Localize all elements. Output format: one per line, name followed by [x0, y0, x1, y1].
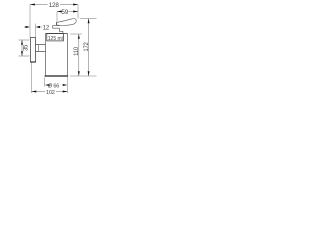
svg-text:Ø 66: Ø 66: [48, 84, 59, 90]
dimension 110 line: [78, 34, 80, 76]
svg-text:12: 12: [43, 26, 50, 32]
pump body steps: [53, 26, 63, 34]
dimension 59 arrows: [57, 11, 78, 13]
dimension 12 left arrow: [24, 26, 27, 28]
holder arm bottom: [36, 51, 46, 53]
dimension 102 arrows: [32, 91, 68, 93]
wall plate: [31, 38, 36, 63]
svg-text:35: 35: [24, 44, 30, 51]
bottle bottom thick: [45, 75, 69, 77]
dimension diameter arrows: [45, 84, 50, 86]
extension line plate front: [35, 24, 37, 38]
dimension 128 line: [30, 4, 78, 6]
dimension 128 arrows: [30, 4, 78, 6]
holder arm top: [36, 44, 46, 46]
extension line below bottle right: [67, 77, 69, 93]
dimension 172 top extension: [80, 18, 97, 20]
dimension 172 line: [88, 19, 90, 77]
wall plate bottom thick: [30, 61, 36, 63]
extension line below bottle left: [44, 78, 46, 87]
spout tip cap: [56, 22, 58, 25]
dimension 59 line: [57, 11, 78, 13]
extension line left of 128: [29, 5, 31, 38]
svg-text:125 ml: 125 ml: [48, 36, 63, 42]
dimension 172 bottom extension: [70, 75, 97, 77]
svg-text:59: 59: [61, 9, 68, 16]
svg-text:128: 128: [49, 2, 60, 9]
bottle body: [46, 33, 68, 35]
svg-text:172: 172: [84, 41, 90, 51]
extension line below plate: [31, 63, 33, 94]
dimension 12 right arrow: [40, 26, 43, 28]
label box 125 ml: [47, 34, 64, 41]
dimension 35 arrows: [21, 40, 23, 56]
svg-text:102: 102: [46, 90, 55, 96]
dimension 102 line: [32, 91, 68, 93]
dimension 35 ticks: [19, 40, 30, 56]
extension line spout tip: [56, 12, 58, 22]
dimension 172 arrows: [88, 19, 90, 77]
dimension 110 arrows: [78, 34, 80, 76]
pump lever: [57, 19, 77, 26]
svg-text:110: 110: [74, 46, 80, 56]
extension line right of 128/59: [77, 5, 79, 19]
dimension 110 top extension: [70, 33, 82, 35]
dimension 35 line: [21, 40, 23, 56]
holder arm joint: [38, 45, 40, 52]
